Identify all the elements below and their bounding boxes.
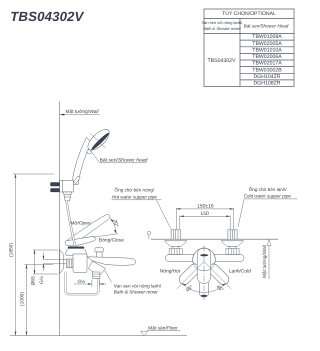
hose upper segment (double line) xyxy=(67,201,76,247)
handle dome outline (front) xyxy=(193,248,216,271)
svg-text:G½: G½ xyxy=(39,276,45,284)
svg-text:G½: G½ xyxy=(78,279,86,284)
wall line (vertical) xyxy=(59,102,61,336)
svg-text:TÙY CHỌN/OPTIONAL: TÙY CHỌN/OPTIONAL xyxy=(222,10,276,17)
svg-text:TBS04302V: TBS04302V xyxy=(208,58,237,64)
label Dong/Close xyxy=(99,238,124,244)
hot neck xyxy=(173,246,179,248)
label Mat tuong/Wall (side) xyxy=(60,109,100,116)
cold neck xyxy=(230,246,236,248)
lever shadow gap xyxy=(68,247,85,249)
center lever tip extension xyxy=(199,283,208,298)
cold pipe cap (front) xyxy=(228,230,237,239)
head centerline xyxy=(90,133,105,148)
mixer body (side) xyxy=(73,254,87,273)
dimension 150 xyxy=(180,215,230,217)
svg-text:(1000): (1000) xyxy=(19,292,25,306)
head clip xyxy=(86,149,92,155)
table body: shower head codes xyxy=(252,34,282,86)
mixer cap dome (side) xyxy=(66,247,86,255)
wall pipe hidden lines xyxy=(43,260,66,264)
table column headers xyxy=(202,20,289,31)
center lever column (front) xyxy=(197,248,211,284)
table body: mixer code xyxy=(208,58,237,64)
svg-text:Cold water supper pipe: Cold water supper pipe xyxy=(244,194,292,199)
svg-text:150: 150 xyxy=(200,211,209,217)
label Mat tuong/Wall (front, vertical) xyxy=(262,240,271,279)
svg-text:Ống chờ bên nóng/: Ống chờ bên nóng/ xyxy=(115,187,155,193)
hot connection nut xyxy=(169,248,182,254)
label Mat san/Floor xyxy=(141,326,180,337)
svg-text:Bath & Shower mixer: Bath & Shower mixer xyxy=(114,290,158,295)
mixer inlet nut (side) xyxy=(66,259,73,268)
svg-text:TBW02006A: TBW02006A xyxy=(252,54,282,60)
svg-text:TBW03002B: TBW03002B xyxy=(252,67,282,73)
shower head outer xyxy=(85,126,113,154)
svg-text:Lạnh/Cold: Lạnh/Cold xyxy=(229,269,251,275)
dimension G1/2 (outlet) xyxy=(74,280,106,287)
dimension (1000) xyxy=(25,265,54,336)
label Mo/Open xyxy=(70,220,91,226)
svg-text:DGH108ZR: DGH108ZR xyxy=(253,81,280,87)
svg-text:Ø65: Ø65 xyxy=(30,276,36,285)
svg-text:Van sen vòi nóng lạnh/: Van sen vòi nóng lạnh/ xyxy=(202,20,243,25)
cold escutcheon (front) xyxy=(221,241,244,247)
dimension (1850) xyxy=(13,174,54,336)
diverter body (side) xyxy=(88,261,105,276)
dimension G1/2 (wall pipe) xyxy=(43,253,45,272)
lever axis extension line xyxy=(93,234,118,238)
open lever (side) xyxy=(67,214,110,244)
lever slot marks xyxy=(200,254,208,256)
bracket screws xyxy=(50,182,59,186)
label hot water pipe xyxy=(112,187,171,229)
svg-text:Mặt tường/Wall: Mặt tường/Wall xyxy=(262,244,268,278)
hose nut (cone) below bracket xyxy=(63,192,71,201)
dimension Ø65 (escutcheon dia) xyxy=(33,250,59,274)
mixer escutcheon (side) xyxy=(60,250,64,274)
svg-text:DGH104ZR: DGH104ZR xyxy=(253,74,280,80)
hot pipe cap (front) xyxy=(171,230,180,239)
svg-text:(1850): (1850) xyxy=(8,243,14,257)
svg-text:TBW02005A: TBW02005A xyxy=(252,41,282,47)
label cold water pipe xyxy=(238,186,298,227)
wall line (front view) xyxy=(151,238,278,240)
svg-text:Van sen vòi nóng lạnh/: Van sen vòi nóng lạnh/ xyxy=(114,284,162,289)
diverter knob (side) xyxy=(95,248,103,252)
floor line xyxy=(10,335,187,337)
svg-text:Mặt tường/Wall: Mặt tường/Wall xyxy=(66,109,100,115)
svg-text:TBW01008A: TBW01008A xyxy=(252,34,282,40)
hose loop (double line) xyxy=(65,272,98,295)
wall datum mark xyxy=(147,231,150,234)
shower bracket xyxy=(60,176,81,192)
hot escutcheon (front) xyxy=(164,241,187,247)
svg-text:Ống chờ bên lạnh/: Ống chờ bên lạnh/ xyxy=(249,186,288,192)
hand shower wand xyxy=(72,137,92,184)
svg-text:Nóng/Hot: Nóng/Hot xyxy=(160,269,181,275)
dimension 150±16 xyxy=(176,208,233,210)
spout (side) xyxy=(87,257,136,265)
label Van sen voi nong lanh xyxy=(105,270,162,295)
svg-text:Bath & Shower mixer: Bath & Shower mixer xyxy=(203,26,241,31)
handle centerline xyxy=(203,246,205,301)
svg-text:Hot water supper pipe: Hot water supper pipe xyxy=(112,194,157,199)
20-degree arc xyxy=(110,218,116,233)
closed lever (side) xyxy=(65,237,96,246)
table header TUY CHON/OPTIONAL xyxy=(222,10,276,17)
left lever (front, -45) xyxy=(177,262,202,287)
label Bat sen/Shower head xyxy=(91,151,148,164)
45-degree arc xyxy=(182,283,226,292)
svg-text:150±16: 150±16 xyxy=(197,203,214,209)
45-degree reference diagonals xyxy=(177,262,204,289)
handle dome base (front) xyxy=(193,248,216,271)
shower head face (dark) xyxy=(90,131,110,151)
svg-text:Bát sen/Shower Head: Bát sen/Shower Head xyxy=(244,24,289,29)
mixer body bar (front) xyxy=(166,255,245,262)
right lever (front, +45) xyxy=(206,262,231,287)
options table frame xyxy=(204,9,294,87)
shower outlet (side) xyxy=(93,272,100,278)
extension lines xyxy=(176,208,233,229)
svg-text:Mở/Open: Mở/Open xyxy=(70,220,91,226)
cold connection nut xyxy=(226,248,239,254)
svg-text:TBW02017A: TBW02017A xyxy=(252,61,282,67)
svg-text:TBW01010A: TBW01010A xyxy=(252,47,282,53)
svg-text:Đóng/Close: Đóng/Close xyxy=(99,238,124,244)
svg-text:TBS04302V: TBS04302V xyxy=(10,9,84,24)
